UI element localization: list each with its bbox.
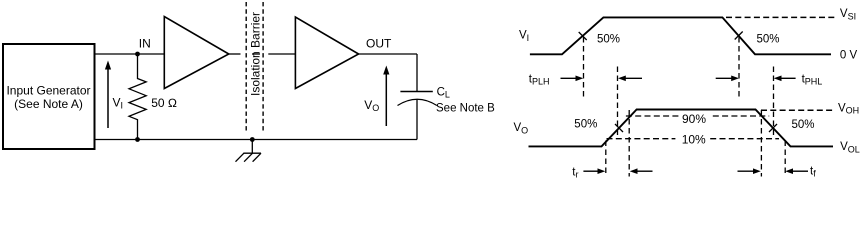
svg-text:50%: 50%	[574, 118, 597, 130]
svg-text:Isolation Barrier: Isolation Barrier	[249, 12, 263, 96]
svg-text:90%: 90%	[682, 112, 706, 126]
svg-text:(See Note A): (See Note A)	[14, 97, 83, 111]
svg-text:0 V: 0 V	[840, 50, 858, 62]
svg-text:10%: 10%	[682, 132, 706, 146]
svg-text:OUT: OUT	[366, 37, 392, 51]
svg-text:IN: IN	[139, 36, 151, 50]
svg-text:See Note B: See Note B	[436, 102, 495, 114]
svg-text:50 Ω: 50 Ω	[151, 96, 177, 110]
svg-text:50%: 50%	[757, 33, 780, 45]
svg-text:50%: 50%	[597, 33, 620, 45]
svg-text:50%: 50%	[792, 119, 815, 131]
svg-text:Input Generator: Input Generator	[6, 84, 90, 98]
